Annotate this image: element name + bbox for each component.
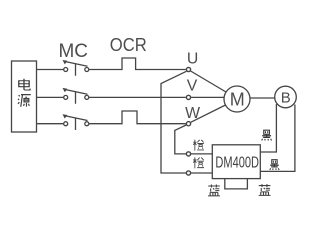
svg-text:OCR: OCR [110, 34, 147, 55]
svg-text:U: U [187, 51, 198, 68]
svg-text:V: V [187, 77, 198, 94]
svg-text:M: M [230, 89, 245, 109]
svg-text:W: W [185, 105, 200, 122]
svg-text:MC: MC [59, 41, 89, 62]
svg-text:B: B [281, 89, 291, 106]
svg-text:DM400D: DM400D [215, 154, 259, 171]
